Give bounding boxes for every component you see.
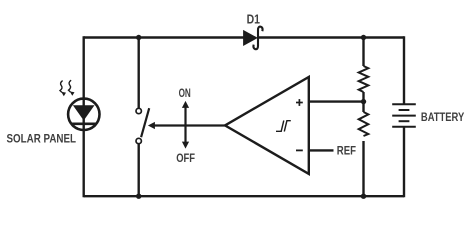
hysteresis symbol inside comparator: [276, 121, 291, 132]
wire between resistors: [362, 92, 364, 112]
switch S1 bottom contact circle: [136, 138, 141, 143]
svg-text:ON: ON: [179, 86, 191, 100]
solar panel photon arrow right: [68, 80, 71, 92]
node junction dot bottom resistor branch: [361, 194, 366, 199]
node junction dot bottom switch branch: [136, 194, 141, 199]
svg-text:BATTERY: BATTERY: [421, 110, 465, 124]
wire top rail right segment: [258, 36, 404, 38]
wire battery bottom stem: [403, 127, 405, 198]
up arrowhead: [182, 101, 189, 108]
battery plate 1 long: [392, 103, 416, 105]
wire minus input to REF: [309, 149, 334, 151]
ON/OFF vertical double arrow: [184, 106, 186, 145]
wire resistor branch bottom: [362, 141, 364, 196]
battery plate 4 short: [399, 120, 410, 122]
svg-text:SOLAR PANEL: SOLAR PANEL: [7, 131, 77, 145]
node junction dot top resistor branch: [361, 35, 366, 40]
battery plate 2 short: [399, 109, 410, 111]
switch S1 blade: [141, 108, 149, 137]
solar panel diode triangle: [73, 105, 95, 120]
wire switch branch bottom: [137, 144, 139, 196]
node junction dot top switch branch: [136, 35, 141, 40]
control line arrowhead pointing at switch blade: [148, 122, 155, 129]
svg-text:OFF: OFF: [176, 151, 195, 165]
svg-text:REF: REF: [337, 143, 357, 157]
wire resistor branch top: [362, 38, 364, 67]
wire bottom rail: [84, 195, 404, 197]
solar panel photodiode circle: [68, 99, 99, 130]
solar panel photon arrow left: [60, 81, 63, 93]
solar panel cathode bar: [71, 123, 96, 126]
wire battery top stem: [403, 36, 405, 104]
comparator minus sign: [296, 149, 303, 151]
comparator plus sign: [296, 99, 303, 106]
resistor R1 (upper divider): [359, 66, 369, 92]
down arrowhead: [182, 142, 189, 149]
control line from comparator output: [152, 124, 225, 126]
node junction dot resistor divider tap: [361, 99, 366, 104]
wire switch branch top: [137, 38, 139, 109]
svg-text:D1: D1: [247, 11, 260, 26]
switch S1 top contact circle: [136, 108, 141, 113]
wire top rail left segment: [84, 36, 244, 38]
battery plate 3 long: [392, 115, 416, 117]
op-amp comparator triangle: [225, 77, 309, 174]
wire left rail through solar panel: [82, 36, 84, 197]
battery plate 5 long: [392, 126, 416, 128]
wire plus input: [309, 100, 364, 102]
diode D1 schottky cathode bar: [253, 27, 262, 50]
diode D1 triangle: [244, 31, 257, 45]
resistor R2 (lower divider): [359, 112, 369, 136]
